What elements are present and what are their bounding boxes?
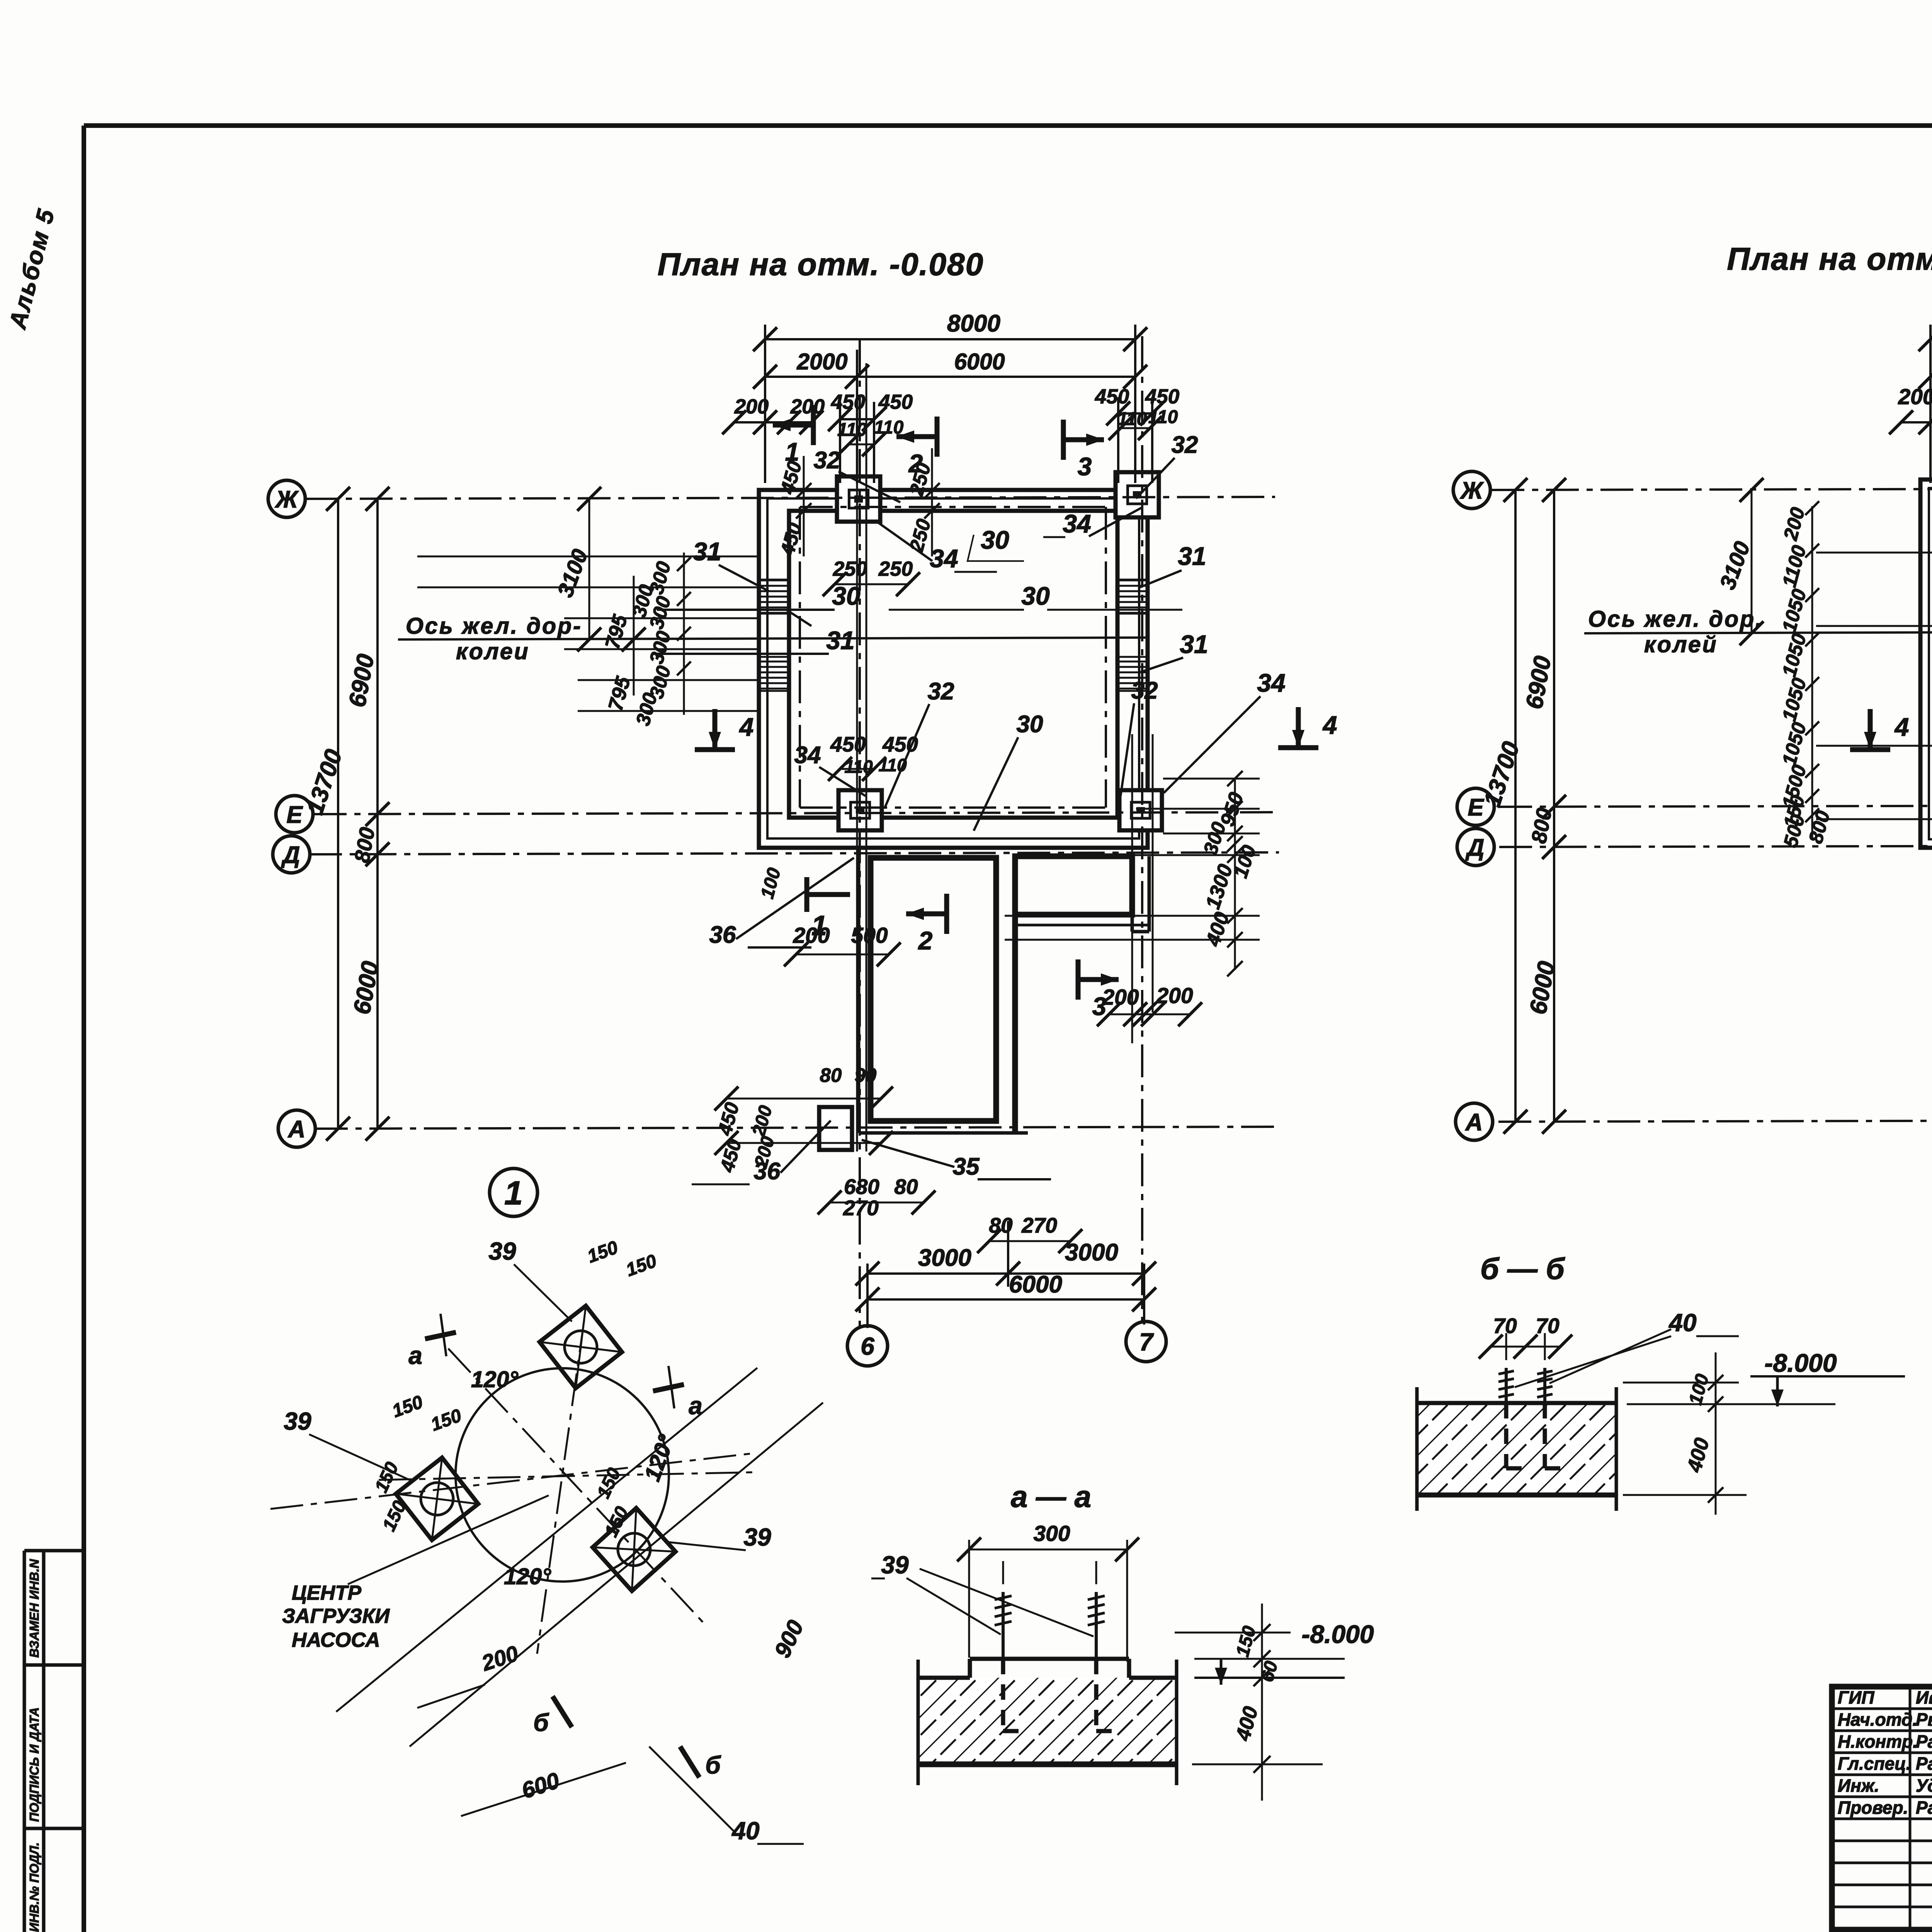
- svg-text:НАСОСА: НАСОСА: [292, 1629, 380, 1651]
- svg-text:270: 270: [843, 1196, 879, 1220]
- svg-text:120°: 120°: [504, 1564, 551, 1589]
- svg-text:6000: 6000: [954, 349, 1005, 374]
- svg-text:250: 250: [878, 558, 913, 580]
- svg-text:34: 34: [930, 544, 958, 573]
- svg-text:680: 680: [844, 1175, 879, 1199]
- svg-text:30: 30: [981, 526, 1009, 554]
- svg-text:450: 450: [831, 391, 865, 413]
- svg-text:450: 450: [882, 732, 918, 756]
- svg-text:Д: Д: [1465, 834, 1485, 861]
- svg-text:Рашевский: Рашевский: [1916, 1731, 1932, 1752]
- svg-text:Нач.отд.: Нач.отд.: [1838, 1709, 1917, 1730]
- svg-text:ЦЕНТР: ЦЕНТР: [292, 1582, 362, 1604]
- svg-text:-8.000: -8.000: [1301, 1620, 1374, 1648]
- svg-text:Н.контр.: Н.контр.: [1838, 1731, 1918, 1752]
- svg-text:8000: 8000: [947, 310, 1000, 337]
- svg-text:2: 2: [918, 926, 933, 955]
- svg-text:б — б: б — б: [1480, 1252, 1565, 1286]
- svg-text:31: 31: [693, 537, 721, 566]
- svg-text:Иванова: Иванова: [1916, 1687, 1932, 1708]
- svg-text:Удалова: Удалова: [1916, 1776, 1932, 1796]
- svg-text:А: А: [1465, 1109, 1483, 1136]
- svg-text:200: 200: [1156, 983, 1193, 1008]
- svg-text:а: а: [408, 1342, 422, 1369]
- svg-text:32: 32: [1131, 677, 1158, 704]
- svg-text:270: 270: [1021, 1213, 1057, 1237]
- svg-text:70: 70: [1536, 1314, 1560, 1338]
- svg-text:ПОДПИСЬ И ДАТА: ПОДПИСЬ И ДАТА: [27, 1707, 41, 1822]
- svg-text:План на отм. -0.080: План на отм. -0.080: [658, 247, 984, 282]
- svg-text:300: 300: [1033, 1521, 1070, 1546]
- svg-text:200: 200: [790, 395, 825, 418]
- svg-text:450: 450: [878, 391, 913, 413]
- svg-text:120°: 120°: [471, 1367, 518, 1392]
- svg-text:30: 30: [1017, 711, 1043, 738]
- svg-text:6: 6: [861, 1332, 874, 1360]
- svg-text:ВЗАМЕН ИНВ.N: ВЗАМЕН ИНВ.N: [27, 1559, 41, 1658]
- svg-text:Гл.спец.: Гл.спец.: [1838, 1753, 1911, 1774]
- svg-text:Ось жел. дор.: Ось жел. дор.: [1588, 606, 1764, 632]
- svg-text:а — а: а — а: [1011, 1480, 1091, 1514]
- svg-text:32: 32: [928, 678, 954, 705]
- svg-text:450: 450: [1095, 385, 1129, 408]
- svg-text:4: 4: [1322, 711, 1337, 739]
- svg-text:200: 200: [1898, 384, 1932, 409]
- svg-text:ЗАГРУЗКИ: ЗАГРУЗКИ: [282, 1605, 390, 1628]
- svg-text:500: 500: [851, 923, 888, 948]
- svg-text:колей: колей: [1644, 632, 1718, 657]
- svg-text:80: 80: [989, 1213, 1013, 1237]
- svg-text:30: 30: [1021, 582, 1050, 610]
- svg-text:Рашевский: Рашевский: [1916, 1753, 1932, 1774]
- svg-text:7: 7: [1139, 1328, 1154, 1356]
- svg-text:1: 1: [811, 910, 827, 941]
- svg-text:34: 34: [1257, 668, 1285, 697]
- svg-text:80: 80: [894, 1175, 918, 1199]
- svg-text:а: а: [689, 1392, 702, 1420]
- svg-text:3: 3: [1078, 452, 1092, 481]
- svg-text:110: 110: [1117, 409, 1147, 429]
- svg-text:39: 39: [881, 1551, 909, 1579]
- svg-text:Д: Д: [281, 842, 300, 868]
- svg-text:Провер.: Провер.: [1838, 1798, 1908, 1818]
- svg-text:110: 110: [1148, 407, 1178, 427]
- svg-text:Ось жел. дор-: Ось жел. дор-: [406, 613, 582, 639]
- svg-text:70: 70: [1493, 1314, 1517, 1338]
- svg-text:250: 250: [833, 558, 867, 580]
- svg-text:39: 39: [743, 1523, 771, 1551]
- svg-text:40: 40: [1668, 1309, 1696, 1337]
- svg-text:б: б: [705, 1751, 721, 1779]
- svg-text:2000: 2000: [796, 349, 847, 374]
- svg-text:3: 3: [1092, 992, 1107, 1020]
- svg-text:Инж.: Инж.: [1838, 1776, 1879, 1796]
- svg-text:31: 31: [1180, 630, 1208, 658]
- svg-text:450: 450: [830, 732, 866, 756]
- svg-text:110: 110: [878, 755, 907, 775]
- svg-text:ИНВ.№ ПОДЛ.: ИНВ.№ ПОДЛ.: [27, 1842, 41, 1932]
- svg-text:32: 32: [814, 447, 840, 474]
- svg-text:200: 200: [734, 395, 769, 418]
- svg-text:6000: 6000: [1009, 1271, 1062, 1298]
- svg-text:34: 34: [1063, 509, 1091, 538]
- svg-text:31: 31: [1178, 542, 1206, 570]
- svg-text:110: 110: [874, 417, 904, 438]
- svg-text:30: 30: [832, 582, 861, 610]
- svg-text:80: 80: [820, 1064, 842, 1086]
- svg-text:32: 32: [1172, 432, 1198, 458]
- svg-text:А: А: [287, 1116, 306, 1143]
- svg-text:34: 34: [794, 742, 821, 769]
- svg-text:450: 450: [1145, 385, 1179, 408]
- svg-text:Рашевский: Рашевский: [1916, 1798, 1932, 1818]
- svg-text:4: 4: [1894, 713, 1909, 741]
- svg-text:3000: 3000: [1065, 1239, 1118, 1266]
- svg-text:36: 36: [709, 922, 736, 948]
- svg-text:4: 4: [739, 713, 754, 741]
- svg-text:40: 40: [731, 1817, 759, 1845]
- svg-text:Рыбкина: Рыбкина: [1916, 1709, 1932, 1730]
- svg-text:б: б: [533, 1709, 549, 1736]
- svg-text:колеи: колеи: [456, 639, 530, 664]
- svg-text:1: 1: [504, 1175, 523, 1212]
- svg-text:3000: 3000: [918, 1245, 971, 1271]
- svg-text:31: 31: [826, 626, 854, 655]
- svg-text:Е: Е: [286, 801, 303, 828]
- svg-text:План на отм. - 3.000: План на отм. - 3.000: [1727, 241, 1932, 277]
- svg-text:39: 39: [488, 1237, 516, 1265]
- svg-text:Ж: Ж: [274, 486, 299, 513]
- svg-text:39: 39: [284, 1407, 311, 1435]
- svg-text:ГИП: ГИП: [1838, 1687, 1874, 1708]
- svg-text:110: 110: [837, 420, 867, 440]
- svg-text:Ж: Ж: [1459, 477, 1484, 504]
- svg-text:-8.000: -8.000: [1764, 1349, 1837, 1377]
- svg-text:90: 90: [855, 1064, 877, 1086]
- svg-text:200: 200: [1102, 985, 1139, 1010]
- svg-text:35: 35: [953, 1153, 980, 1180]
- svg-text:110: 110: [844, 757, 873, 777]
